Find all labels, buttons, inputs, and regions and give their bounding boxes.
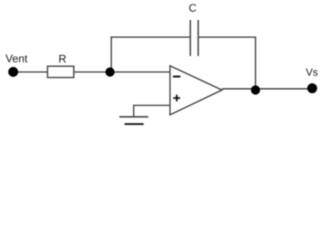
- wire top feedback left segment: [110, 36, 190, 38]
- capacitor C left plate: [189, 20, 191, 56]
- capacitor C right plate: [197, 20, 199, 56]
- wire feedback riser from node A: [110, 37, 112, 73]
- wire non-inverting input: [133, 104, 170, 106]
- svg-text:C: C: [189, 3, 197, 15]
- node Vent terminal: [8, 67, 18, 77]
- wire top feedback right segment: [198, 36, 256, 38]
- svg-text:R: R: [59, 53, 67, 65]
- wire op-amp output: [222, 88, 312, 90]
- op-amp U1 triangle: [170, 66, 222, 115]
- svg-text:Vent: Vent: [5, 53, 27, 65]
- node output junction: [251, 85, 260, 94]
- op-amp inverting pin minus sign: [173, 76, 180, 78]
- wire ground stem: [133, 105, 135, 117]
- wire Vent node to resistor: [13, 71, 48, 73]
- resistor R: [48, 66, 74, 77]
- wire resistor to inverting input: [74, 71, 171, 73]
- op-amp non-inverting pin plus sign: [173, 95, 180, 102]
- node A junction: [105, 67, 114, 76]
- svg-text:Vs: Vs: [306, 67, 318, 79]
- ground: [119, 117, 148, 124]
- node Vs terminal: [307, 83, 317, 93]
- wire right feedback drop: [255, 37, 257, 90]
